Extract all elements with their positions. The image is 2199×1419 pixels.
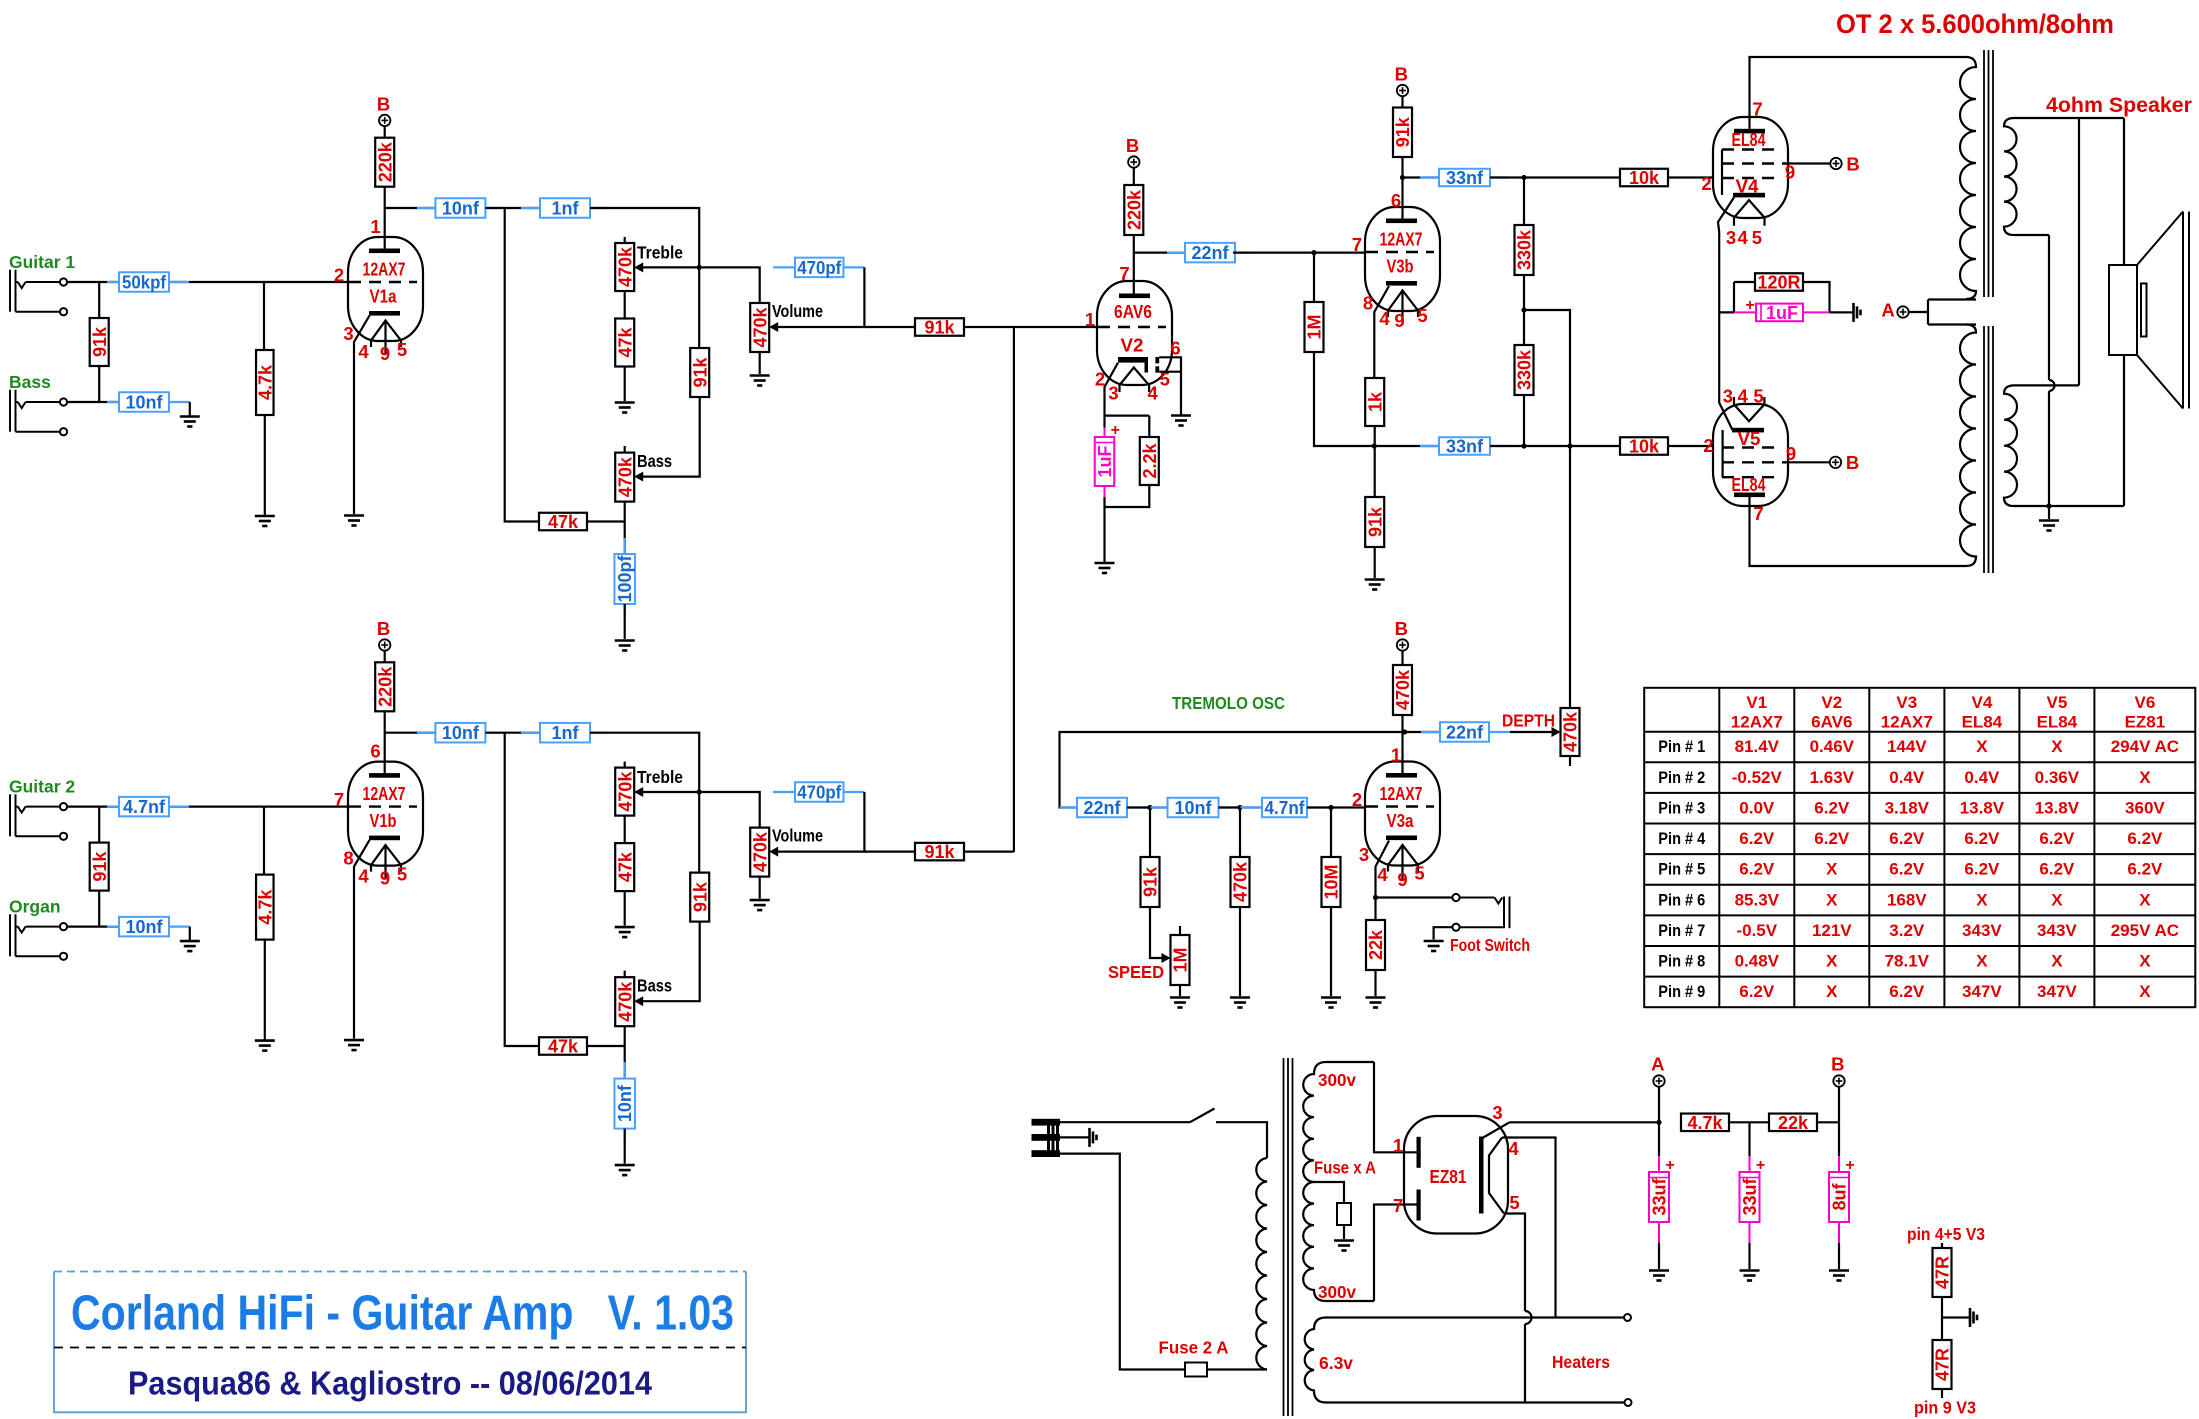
- svg-text:Pasqua86 & Kagliostro -- 08/06: Pasqua86 & Kagliostro -- 08/06/2014: [128, 1365, 653, 1402]
- resistor 22k (filter): [1769, 1113, 1817, 1133]
- wire V3a cathode pin 3 to foot switch and 22k: [1376, 841, 1453, 898]
- ground (speed pot): [1170, 998, 1190, 1008]
- svg-text:91k: 91k: [1141, 866, 1161, 897]
- svg-text:X: X: [1976, 952, 1988, 971]
- svg-text:1: 1: [1393, 1135, 1403, 1156]
- wire treble junction to 470pf and volume pot: [699, 267, 760, 303]
- ground (4.7k lower): [255, 1041, 275, 1051]
- wire 10nf to 1nf junction, down to 47k: [485, 208, 540, 522]
- wire 10nf to ground (lower tone): [624, 1129, 626, 1164]
- V5 heater: [1734, 397, 1764, 421]
- wire treble pot to 47k (lower): [624, 816, 626, 844]
- tube V5 EL84: [1713, 404, 1788, 506]
- svg-text:470k: 470k: [1393, 669, 1413, 710]
- svg-text:13.8V: 13.8V: [2035, 798, 2080, 817]
- svg-text:V5: V5: [1738, 428, 1761, 449]
- svg-text:10nf: 10nf: [615, 1084, 635, 1122]
- svg-text:0.46V: 0.46V: [1810, 737, 1855, 756]
- svg-text:33uf: 33uf: [1649, 1177, 1669, 1215]
- EZ81 plates pins 1 and 7: [1417, 1137, 1421, 1168]
- svg-text:4.7nf: 4.7nf: [123, 797, 166, 817]
- wire V5 plate pin 7 to OT primary bottom: [1750, 497, 1967, 566]
- svg-text:1uF: 1uF: [1766, 303, 1798, 323]
- resistor 4.7k (V1b grid leak): [255, 875, 275, 940]
- svg-text:470k: 470k: [615, 771, 635, 812]
- wire B to 220k (lower): [384, 651, 386, 663]
- fuse Fuse x A (CT): [1337, 1203, 1351, 1225]
- wire B to 91k (V3b): [1401, 96, 1403, 107]
- svg-text:6: 6: [370, 741, 380, 762]
- capacitor 50kpf (input): [107, 281, 119, 283]
- resistor 220k (V1a plate load): [375, 138, 395, 187]
- resistor 10k (V4 grid stopper): [1620, 168, 1668, 188]
- svg-text:22nf: 22nf: [1083, 798, 1121, 818]
- svg-text:Guitar 2: Guitar 2: [9, 777, 75, 797]
- svg-text:6.2V: 6.2V: [1889, 982, 1925, 1001]
- svg-text:Pin # 2: Pin # 2: [1658, 768, 1705, 787]
- svg-text:4: 4: [1379, 308, 1390, 329]
- svg-text:10nf: 10nf: [125, 392, 163, 412]
- OT secondary winding: [2004, 118, 2124, 235]
- svg-text:EZ81: EZ81: [2125, 713, 2166, 732]
- capacitor 10nf (coupling lower): [417, 732, 435, 734]
- svg-text:91k: 91k: [1393, 116, 1413, 147]
- svg-text:91k: 91k: [690, 357, 710, 388]
- wire foot switch sleeve to ground: [1434, 927, 1453, 939]
- wire cathode junction to 120R/1uF: [1719, 282, 1755, 312]
- svg-text:Pin # 3: Pin # 3: [1658, 798, 1705, 817]
- ground (heater center, sideways): [1970, 1308, 1977, 1327]
- svg-text:12AX7: 12AX7: [363, 783, 406, 804]
- svg-text:12AX7: 12AX7: [363, 259, 406, 280]
- junction node A: [1656, 1120, 1661, 1125]
- svg-text:4.7k: 4.7k: [1687, 1113, 1723, 1133]
- wire EZ81 pin 4 to heater line: [1502, 1138, 1556, 1318]
- resistor 470k (V3a plate load): [1393, 665, 1413, 715]
- svg-text:6.2V: 6.2V: [1814, 798, 1850, 817]
- svg-text:EL84: EL84: [1732, 129, 1767, 150]
- svg-text:X: X: [1826, 890, 1838, 909]
- wire to speaker terminals: [2123, 118, 2125, 506]
- svg-text:7: 7: [1119, 263, 1129, 284]
- svg-text:22nf: 22nf: [1191, 243, 1229, 263]
- wire pin 3 to node A: [1510, 1121, 1660, 1123]
- svg-text:X: X: [1976, 737, 1988, 756]
- svg-text:3: 3: [1723, 386, 1733, 407]
- svg-text:330k: 330k: [1515, 349, 1535, 390]
- speed wiper arrow: [1162, 953, 1171, 963]
- svg-text:3: 3: [1492, 1102, 1502, 1123]
- junction 1M grid leak: [1311, 250, 1316, 255]
- svg-text:9: 9: [1785, 162, 1795, 183]
- wire plug earth to chassis ground: [1060, 1136, 1089, 1138]
- wire 47k to ground (lower): [624, 891, 626, 926]
- capacitor 1nf (treble feed lower): [521, 732, 540, 734]
- wire CT fuse to ground: [1343, 1225, 1345, 1239]
- svg-text:+: +: [1845, 1157, 1854, 1174]
- svg-text:33nf: 33nf: [1446, 436, 1484, 456]
- potentiometer Volume 470k (lower): [750, 828, 770, 877]
- resistor 120R (cathode bias): [1755, 273, 1803, 293]
- svg-text:9: 9: [1397, 869, 1407, 890]
- svg-text:330k: 330k: [1515, 229, 1535, 270]
- svg-text:47k: 47k: [548, 512, 579, 532]
- svg-text:10nf: 10nf: [442, 723, 480, 743]
- svg-text:2: 2: [1701, 173, 1711, 194]
- EZ81 heater: [1489, 1138, 1504, 1214]
- ground (10nf lower tone): [615, 1165, 635, 1175]
- wire 91k to V3b plate pin 6 and 33nf: [1403, 157, 1440, 219]
- svg-text:B: B: [1126, 135, 1139, 156]
- resistor 470k (tremolo divider): [1239, 808, 1241, 858]
- svg-text:OT 2 x 5.600ohm/8ohm: OT 2 x 5.600ohm/8ohm: [1836, 9, 2114, 39]
- wire treble pot to 47k: [624, 291, 626, 319]
- svg-text:0.0V: 0.0V: [1739, 798, 1775, 817]
- svg-text:EZ81: EZ81: [1430, 1166, 1467, 1187]
- capacitor 10nf (phase shift 2): [1150, 806, 1168, 808]
- wire 22k to ground: [1374, 970, 1376, 996]
- tube V2 6AV6: [1097, 281, 1172, 385]
- svg-text:81.4V: 81.4V: [1735, 737, 1780, 756]
- wire 91k to bass wiper: [643, 397, 700, 477]
- svg-text:B: B: [1846, 154, 1859, 175]
- svg-text:4.7nf: 4.7nf: [1265, 798, 1306, 818]
- svg-text:DEPTH: DEPTH: [1502, 711, 1555, 731]
- svg-text:Bass: Bass: [637, 976, 672, 996]
- svg-text:6.2V: 6.2V: [2127, 860, 2163, 879]
- svg-text:7: 7: [1352, 234, 1362, 255]
- svg-text:V3: V3: [1896, 693, 1917, 712]
- capacitor 100pf (vertical, upper): [624, 538, 626, 554]
- svg-text:Heaters: Heaters: [1552, 1352, 1610, 1372]
- wire Organ tip to 10nf: [67, 891, 119, 927]
- ground (bass input cap): [180, 417, 200, 427]
- svg-text:B: B: [1395, 64, 1408, 85]
- junction treble wiper (lower): [697, 789, 702, 794]
- svg-text:13.8V: 13.8V: [1960, 798, 2005, 817]
- svg-text:X: X: [1976, 890, 1988, 909]
- node B (V4 screen): [1830, 154, 1859, 175]
- svg-text:10k: 10k: [1629, 168, 1660, 188]
- svg-text:3.2V: 3.2V: [1889, 921, 1925, 940]
- wire 1M to cathode junction: [1314, 352, 1374, 446]
- svg-text:9: 9: [1786, 443, 1796, 464]
- wire primary bottom to fuse: [1207, 1368, 1267, 1370]
- svg-text:X: X: [2051, 952, 2063, 971]
- svg-text:Corland HiFi - Guitar Amp V.: Corland HiFi - Guitar Amp V. 1.03: [71, 1287, 734, 1341]
- svg-text:294V AC: 294V AC: [2111, 737, 2179, 756]
- wire V2 diode pins 5+6 to ground: [1159, 357, 1181, 414]
- wire 47R junction to ground: [1942, 1297, 1969, 1340]
- svg-text:91k: 91k: [690, 881, 710, 912]
- wire grid node to 4.7k (lower): [263, 807, 265, 875]
- node B supply terminal: [1831, 1054, 1845, 1087]
- input jack Bass: [10, 390, 67, 436]
- svg-text:91k: 91k: [924, 842, 955, 862]
- wire B to 220k (V2): [1133, 168, 1135, 185]
- svg-text:6.2V: 6.2V: [2127, 829, 2163, 848]
- PT HV secondary winding 300v-300v: [1303, 1062, 1374, 1301]
- svg-text:8uf: 8uf: [1829, 1182, 1849, 1210]
- resistor 91k (mixer lower): [915, 842, 964, 862]
- svg-text:1nf: 1nf: [552, 198, 580, 218]
- svg-text:91k: 91k: [924, 318, 955, 338]
- wire 33nf to 10k (V5): [1490, 445, 1620, 447]
- resistor 47R (heater hum 1): [1941, 1243, 1943, 1248]
- wire 4.7nf to V3a grid pin 2: [1307, 806, 1365, 808]
- resistor 22k (V3a cathode): [1374, 898, 1376, 921]
- potentiometer Treble 470k (upper): [624, 237, 626, 243]
- ground (volume lower): [750, 900, 770, 910]
- ground (mains earth, sideways): [1090, 1128, 1097, 1147]
- svg-text:10nf: 10nf: [1174, 798, 1212, 818]
- svg-text:360V: 360V: [2125, 798, 2165, 817]
- wire 220k to V1b pin 6 and coupling caps: [385, 711, 436, 773]
- svg-text:22k: 22k: [1366, 929, 1386, 960]
- svg-text:47k: 47k: [615, 327, 635, 358]
- ground (treble 47k lower): [615, 927, 635, 937]
- svg-text:B: B: [377, 93, 390, 114]
- potentiometer 470k DEPTH: [1561, 708, 1581, 756]
- svg-text:B: B: [377, 618, 390, 639]
- wire 91k to bass wiper (lower): [643, 922, 700, 1002]
- svg-text:6.2V: 6.2V: [1739, 829, 1775, 848]
- wire 1M to ground: [1179, 985, 1181, 996]
- ground (33uf 1): [1649, 1271, 1669, 1281]
- svg-text:168V: 168V: [1887, 890, 1927, 909]
- svg-text:Organ: Organ: [9, 897, 61, 917]
- wire Bass tip to 10nf: [67, 366, 119, 402]
- wire 10M to ground: [1330, 907, 1332, 996]
- svg-text:V3a: V3a: [1387, 810, 1415, 831]
- ground (22k): [1366, 998, 1386, 1008]
- svg-text:220k: 220k: [375, 141, 395, 182]
- wire plug live to switch: [1060, 1121, 1190, 1123]
- svg-text:10k: 10k: [1629, 437, 1660, 457]
- resistor 91k (V3b plate load): [1393, 108, 1413, 158]
- svg-text:B: B: [1846, 452, 1859, 473]
- svg-text:pin 4+5 V3: pin 4+5 V3: [1907, 1224, 1985, 1244]
- svg-text:Pin # 8: Pin # 8: [1658, 952, 1705, 971]
- svg-text:EL84: EL84: [1962, 713, 2003, 732]
- svg-text:0.48V: 0.48V: [1735, 952, 1780, 971]
- wire HV top to EZ81 pin 1: [1374, 1062, 1417, 1152]
- svg-text:V6: V6: [2135, 693, 2156, 712]
- wire 10k to V5 pin 2: [1668, 445, 1713, 447]
- ground (HV center tap): [1334, 1241, 1354, 1251]
- svg-text:5: 5: [397, 339, 407, 360]
- wire 91k to V2 grid, long join vertical: [964, 327, 1097, 852]
- svg-text:Pin # 6: Pin # 6: [1658, 890, 1705, 909]
- svg-text:220k: 220k: [375, 666, 395, 707]
- wire 4.7k to 22k: [1729, 1121, 1769, 1123]
- EZ81 cathode: [1479, 1137, 1484, 1214]
- svg-text:470k: 470k: [750, 306, 770, 347]
- title block border: [54, 1272, 746, 1413]
- svg-text:Bass: Bass: [9, 372, 51, 392]
- junction 330k chain top: [1521, 175, 1526, 180]
- wire grid node to 4.7k: [263, 282, 265, 350]
- input jack Guitar 2: [10, 794, 67, 840]
- capacitor 10nf (coupling): [417, 207, 435, 209]
- ground (33uf 2): [1740, 1271, 1760, 1281]
- heater terminal top: [1624, 1314, 1631, 1321]
- bass wiper arrow (upper): [634, 472, 643, 482]
- svg-text:470k: 470k: [615, 981, 635, 1022]
- svg-text:6.2V: 6.2V: [1964, 829, 2000, 848]
- svg-text:300v: 300v: [1318, 1070, 1356, 1090]
- output transformer OT primary: [1960, 57, 1976, 299]
- svg-text:X: X: [2139, 890, 2151, 909]
- svg-text:V2: V2: [1821, 693, 1842, 712]
- treble wiper arrow: [642, 266, 699, 268]
- svg-text:6.2V: 6.2V: [2039, 829, 2075, 848]
- node A and OT center tap: [1881, 300, 1908, 321]
- wire V3b cathode pin 8 to 1k: [1374, 286, 1389, 378]
- resistor 2.2k (V2 cathode): [1140, 437, 1160, 485]
- wire 10k to V4 pin 2: [1668, 176, 1713, 178]
- wire 1nf to treble network: [590, 208, 699, 267]
- svg-text:V5: V5: [2047, 693, 2068, 712]
- svg-text:343V: 343V: [2037, 921, 2077, 940]
- svg-text:Pin # 7: Pin # 7: [1658, 921, 1705, 940]
- voltage table grid: [1644, 688, 2195, 1007]
- svg-text:X: X: [2051, 890, 2063, 909]
- svg-text:12AX7: 12AX7: [1380, 229, 1423, 250]
- wire B to 470k (V3a): [1401, 651, 1403, 665]
- capacitor 33nf (lower, to V5): [1374, 445, 1439, 447]
- svg-text:6.2V: 6.2V: [1889, 829, 1925, 848]
- voltage table rows: [1658, 737, 2179, 1001]
- OT core: [1984, 50, 1993, 573]
- svg-text:91k: 91k: [90, 851, 110, 882]
- resistor 91k (tremolo): [1149, 808, 1151, 858]
- potentiometer Bass 470k (lower): [624, 971, 626, 978]
- capacitor 33uf electrolytic (second filter): [1748, 1122, 1750, 1156]
- svg-text:470k: 470k: [1561, 711, 1581, 752]
- svg-text:7: 7: [1752, 99, 1762, 120]
- treble wiper arrow (lower): [642, 791, 699, 793]
- wire 10nf to ground (lower): [189, 927, 191, 941]
- svg-text:12AX7: 12AX7: [1881, 713, 1933, 732]
- wire 91k joins channel-join vertical: [964, 850, 1014, 852]
- wire V4 plate pin 7 to OT primary top: [1750, 57, 1967, 129]
- svg-text:470k: 470k: [615, 246, 635, 287]
- tube V4 EL84: [1713, 117, 1788, 218]
- resistor 91k (input divider lower): [90, 843, 110, 891]
- capacitor 33nf (upper, to V4): [1420, 176, 1439, 178]
- triode V1a 12AX7: [348, 237, 423, 341]
- resistor 220k (V1b plate load): [375, 662, 395, 711]
- svg-text:Pin # 4: Pin # 4: [1658, 829, 1705, 848]
- svg-text:5: 5: [1417, 305, 1427, 326]
- svg-text:12AX7: 12AX7: [1731, 713, 1783, 732]
- svg-text:EL84: EL84: [2037, 713, 2078, 732]
- junction depth takeoff: [1567, 443, 1572, 448]
- wire 470k to V3a plate pin 1 and feedback: [1403, 715, 1440, 773]
- wire 1nf to treble network (lower): [590, 733, 699, 792]
- wire secondary top tap down: [2078, 118, 2080, 385]
- svg-text:6.2V: 6.2V: [1814, 829, 1850, 848]
- svg-text:6AV6: 6AV6: [1114, 301, 1152, 322]
- svg-text:6.2V: 6.2V: [1739, 860, 1775, 879]
- svg-text:Pin # 1: Pin # 1: [1658, 737, 1705, 756]
- svg-text:+: +: [1665, 1157, 1674, 1174]
- wire 330k to lower 33nf line: [1523, 395, 1525, 446]
- wire secondary mid tap down to ground node: [2048, 235, 2050, 506]
- svg-text:Foot Switch: Foot Switch: [1450, 935, 1530, 955]
- wire 4.7k to ground (lower): [264, 940, 266, 1040]
- wire V2 cathode pin 2 to RC network: [1105, 363, 1150, 437]
- svg-text:91k: 91k: [90, 326, 110, 357]
- capacitor 4.7nf (input lower): [107, 805, 119, 807]
- svg-text:4: 4: [1737, 227, 1748, 248]
- svg-text:1.63V: 1.63V: [1810, 768, 1855, 787]
- ground (treble 47k): [615, 403, 635, 413]
- node B supply (V2 plate load): [1126, 135, 1140, 168]
- svg-text:2: 2: [1703, 435, 1713, 456]
- PT 6.3v heater winding: [1305, 1318, 1625, 1403]
- svg-text:33nf: 33nf: [1446, 168, 1484, 188]
- junction V3b plate: [1400, 175, 1405, 180]
- svg-text:4: 4: [358, 341, 369, 362]
- svg-text:A: A: [1881, 300, 1894, 321]
- svg-text:120R: 120R: [1757, 273, 1800, 293]
- node B supply (V3b plate load): [1395, 64, 1409, 97]
- svg-text:22k: 22k: [1778, 1113, 1809, 1133]
- wire EZ81 pin 3 diagonal: [1482, 1122, 1510, 1138]
- svg-text:5: 5: [1752, 227, 1762, 248]
- wire Guitar1 tip to grid: [67, 281, 348, 283]
- wire 120R right side: [1803, 282, 1843, 312]
- tube V3b 12AX7: [1365, 207, 1440, 311]
- capacitor 22nf (depth feed): [1421, 731, 1440, 733]
- svg-text:Pin # 9: Pin # 9: [1658, 982, 1705, 1001]
- svg-text:5: 5: [397, 864, 407, 885]
- svg-text:+: +: [1111, 422, 1120, 439]
- svg-text:8: 8: [343, 848, 353, 869]
- svg-text:470k: 470k: [750, 831, 770, 872]
- ground (V1a cathode): [344, 516, 364, 526]
- potentiometer Treble 470k (lower): [624, 762, 626, 768]
- ground (organ input cap): [180, 941, 200, 951]
- capacitor 22nf (phase shift 1): [1060, 806, 1078, 808]
- wire V1b cathode pin 8 to ground: [354, 840, 370, 1039]
- svg-text:0.4V: 0.4V: [1889, 768, 1925, 787]
- svg-text:X: X: [2051, 737, 2063, 756]
- svg-text:8: 8: [1363, 293, 1373, 314]
- resistor 10k (V5 grid stopper): [1620, 437, 1668, 457]
- svg-text:V3b: V3b: [1387, 256, 1414, 277]
- svg-text:4: 4: [1737, 386, 1748, 407]
- resistor 4.7k (filter): [1681, 1113, 1729, 1133]
- svg-text:V4: V4: [1972, 693, 1993, 712]
- capacitor 4.7nf (phase shift 3): [1240, 806, 1262, 808]
- svg-text:9: 9: [380, 343, 390, 364]
- wire Guitar2 tip to grid: [67, 805, 348, 807]
- wire 220k to V1a pin 1 and coupling caps: [385, 187, 436, 249]
- svg-text:47R: 47R: [1933, 1348, 1953, 1381]
- svg-text:7: 7: [334, 789, 344, 810]
- ground (8uf): [1829, 1271, 1849, 1281]
- ground (tremolo 470k): [1230, 998, 1250, 1008]
- power transformer primary: [1256, 1158, 1267, 1370]
- svg-text:91k: 91k: [1365, 506, 1385, 537]
- ground (V2 diodes): [1171, 416, 1191, 426]
- potentiometer Bass 470k (upper): [624, 446, 626, 453]
- svg-text:Bass: Bass: [637, 451, 672, 471]
- svg-text:9: 9: [380, 868, 390, 889]
